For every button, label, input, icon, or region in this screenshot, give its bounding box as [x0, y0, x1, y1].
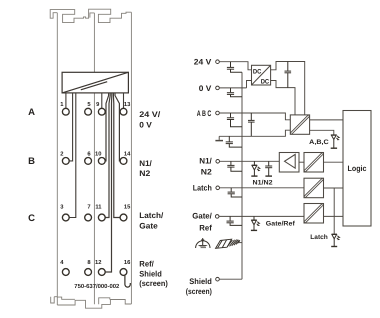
svg-text:2: 2 [60, 150, 63, 157]
capacitor C1 (24V filter) [227, 62, 242, 73]
module label Ref/Shield (screen) [139, 260, 168, 289]
wire A1 to opto U3 [299, 161, 304, 163]
svg-text:16: 16 [124, 259, 131, 266]
terminal 2 [62, 158, 69, 165]
svg-text:8: 8 [87, 259, 91, 266]
terminal 15 [120, 214, 127, 221]
module outline: top latch profile [50, 9, 131, 22]
capacitor C3 (DC output) [285, 62, 292, 88]
wire N to comparator [220, 160, 280, 162]
node 0V terminal circle [216, 86, 220, 90]
svg-text:N2: N2 [201, 167, 213, 176]
pin label 5 [87, 102, 91, 108]
shield hook on terminal 16 [125, 276, 130, 288]
svg-text:(screen): (screen) [139, 279, 168, 288]
capacitor C6 (return to bus) [226, 136, 242, 147]
shield braid symbol [216, 239, 240, 248]
svg-text:15: 15 [124, 204, 131, 210]
pin label 10 [95, 150, 101, 157]
label 0V [199, 84, 212, 93]
wire 24V to DC/DC [219, 62, 251, 70]
earth symbol [196, 238, 210, 248]
pin label 8 [87, 259, 91, 266]
LED D2 (N1/N2) [251, 161, 259, 176]
label N1/N2 [253, 179, 273, 186]
opto-coupler U2 (ABC) [290, 115, 309, 134]
wire U2 output to LED [310, 130, 334, 134]
pin label 6 [87, 150, 91, 157]
wire K1 to terminal 3 [69, 93, 76, 218]
svg-text:24 V: 24 V [194, 58, 212, 67]
module label N1/N2 [139, 159, 152, 178]
terminal 7 [85, 214, 92, 221]
svg-text:A: A [28, 107, 35, 118]
terminal 10 [98, 158, 105, 165]
svg-text:Shield: Shield [139, 269, 162, 278]
capacitor C10 (Gate filter) [227, 216, 243, 225]
terminal 11 [98, 214, 105, 221]
wire K1 to terminal 10 [105, 93, 108, 161]
svg-text:Shield: Shield [189, 277, 212, 286]
label Logic [348, 164, 368, 173]
pin label 1 [60, 102, 64, 108]
wire Latch to opto U4 [220, 187, 305, 189]
svg-text:10: 10 [95, 150, 101, 157]
LED D4 (Gate/Ref) [251, 216, 259, 230]
wire U4 output to logic [324, 187, 344, 189]
node Shield terminal circle [216, 277, 220, 281]
pin label 16 [124, 259, 131, 266]
wire K1 to terminal 12 [105, 93, 112, 272]
wire 0V [219, 87, 246, 89]
wire ABC to opto U2 [219, 113, 290, 120]
label DC bottom [261, 79, 270, 86]
wire shield symbol to bus [237, 242, 242, 244]
svg-text:Latch/: Latch/ [139, 211, 164, 220]
opto-coupler U4 (Latch) [304, 178, 324, 198]
pin label 15 [124, 204, 131, 210]
capacitor C4 (ABC filter) [227, 113, 242, 127]
svg-text:Gate/Ref: Gate/Ref [266, 220, 296, 227]
svg-text:0 V: 0 V [199, 84, 212, 93]
wire U5 output to logic [324, 215, 344, 217]
electronics block K1 (box with diagonals) [62, 72, 128, 93]
svg-text:3: 3 [60, 203, 64, 210]
svg-text:N1/N2: N1/N2 [253, 179, 273, 186]
capacitor C9 (Latch filter) [228, 188, 242, 197]
wire Shield to bus [219, 278, 242, 280]
capacitor C8 (N series) [265, 161, 272, 176]
LED D1 (A,B,C) [331, 135, 339, 148]
svg-text:14: 14 [124, 151, 131, 157]
logic block U6 [343, 111, 371, 227]
module outline: centre divider [93, 13, 95, 304]
capacitor C2 (0V filter) [227, 88, 242, 97]
node ABC terminal circle [216, 111, 220, 115]
opto-coupler U3 (N) [304, 153, 324, 173]
terminal 12 [98, 269, 105, 276]
module outline: bottom foot profile [51, 297, 132, 309]
svg-text:7: 7 [87, 204, 90, 210]
pin label 9 [96, 101, 100, 108]
label Gate/ Ref [192, 211, 212, 232]
svg-text:Logic: Logic [348, 164, 368, 173]
svg-text:DC: DC [253, 69, 262, 76]
svg-text:11: 11 [95, 204, 102, 210]
capacitor C5 (ABC series) [248, 113, 255, 136]
wire K1 to terminal 2 [69, 93, 73, 161]
comparator A1 (triangle box) [279, 153, 299, 173]
svg-text:12: 12 [95, 259, 101, 266]
pin label 11 [95, 204, 102, 210]
svg-text:Gate/: Gate/ [192, 211, 212, 220]
wire DC/DC return to 0V [247, 81, 252, 88]
wire Gate to opto U5 [219, 215, 304, 217]
terminal 13 [120, 108, 127, 115]
label N1/ N2 [199, 156, 212, 176]
label Latch (LED) [310, 234, 328, 241]
label Gate/Ref [266, 220, 296, 227]
pin label 4 [60, 260, 64, 266]
label A,B,C [309, 139, 329, 146]
terminal 9 [98, 108, 105, 115]
node Latch terminal circle [216, 186, 220, 190]
wire ABC return line [219, 130, 290, 136]
terminal 3 [62, 214, 69, 221]
svg-text:Ref: Ref [199, 224, 212, 233]
svg-text:DC: DC [261, 79, 270, 86]
LED D3 (Latch) [331, 234, 339, 246]
terminal 6 [85, 158, 92, 165]
row label C [28, 213, 35, 224]
svg-text:5: 5 [87, 102, 91, 108]
terminal 8 [85, 269, 92, 276]
svg-text:N2: N2 [139, 169, 151, 178]
wire K1 to terminal 14 [115, 93, 120, 161]
part number 750-637/000-002 [74, 283, 120, 290]
module label Latch/Gate [139, 211, 164, 230]
row label A [28, 107, 35, 118]
wire DC/DC + output rail [271, 62, 305, 115]
wire K1 to terminal 1 [65, 93, 67, 108]
svg-text:A,B,C: A,B,C [309, 139, 329, 146]
label Latch [193, 184, 212, 193]
svg-text:Latch: Latch [193, 184, 212, 193]
wire DC/DC - output rail [271, 81, 295, 115]
pin label 7 [87, 204, 90, 210]
DC/DC converter U1 [252, 65, 271, 85]
svg-text:24 V/: 24 V/ [139, 110, 161, 119]
row label B [28, 156, 35, 167]
wire K1 to terminal 13 [123, 93, 125, 108]
svg-text:1: 1 [60, 102, 64, 108]
node N1/N2 terminal circle [216, 160, 220, 164]
wire U4 output to latch LED [333, 188, 335, 234]
label 24V [194, 58, 212, 67]
node 24V terminal circle [216, 60, 220, 64]
svg-text:4: 4 [60, 260, 64, 266]
node Gate/Ref terminal circle [215, 215, 219, 219]
svg-text:Ref/: Ref/ [139, 260, 154, 269]
svg-text:(screen): (screen) [186, 287, 212, 296]
wire K1 to terminal 9 [101, 93, 103, 108]
svg-text:A B C: A B C [197, 109, 212, 118]
svg-text:B: B [28, 156, 35, 167]
pin label 13 [124, 101, 131, 108]
pin label 12 [95, 259, 101, 266]
module label 24V/0V [139, 110, 161, 129]
terminal 1 [62, 108, 69, 115]
svg-text:N1/: N1/ [139, 159, 152, 168]
svg-text:6: 6 [87, 150, 91, 157]
svg-text:Gate: Gate [139, 221, 158, 230]
terminal 5 [85, 108, 92, 115]
svg-text:Latch: Latch [310, 234, 328, 241]
label DC top [253, 69, 262, 76]
wire U2 output to logic [310, 119, 343, 121]
capacitor C7 (N filter) [227, 161, 242, 171]
label Shield (screen) [186, 277, 212, 296]
svg-text:C: C [28, 213, 35, 224]
pin label 2 [60, 150, 63, 157]
ground bus (vertical) [241, 72, 243, 279]
wire K1 to terminal 15 [113, 93, 120, 218]
chassis stub on return line [215, 136, 223, 140]
module outline: left edge [56, 13, 58, 305]
svg-text:9: 9 [96, 101, 100, 108]
terminal 16 [120, 269, 127, 276]
module outline: right edge [130, 12, 132, 304]
terminal 4 [62, 269, 69, 276]
svg-text:750-637/000-002: 750-637/000-002 [74, 283, 120, 290]
wire K1 to terminal 11 [105, 93, 110, 218]
svg-text:N1/: N1/ [199, 156, 212, 165]
terminal 14 [120, 158, 127, 165]
svg-text:13: 13 [124, 101, 131, 108]
svg-text:0 V: 0 V [139, 120, 152, 129]
pin label 14 [124, 151, 131, 157]
wire U3 output to logic [324, 161, 344, 163]
label A B C [197, 109, 212, 118]
opto-coupler U5 (Gate) [304, 204, 324, 224]
pin label 3 [60, 203, 64, 210]
